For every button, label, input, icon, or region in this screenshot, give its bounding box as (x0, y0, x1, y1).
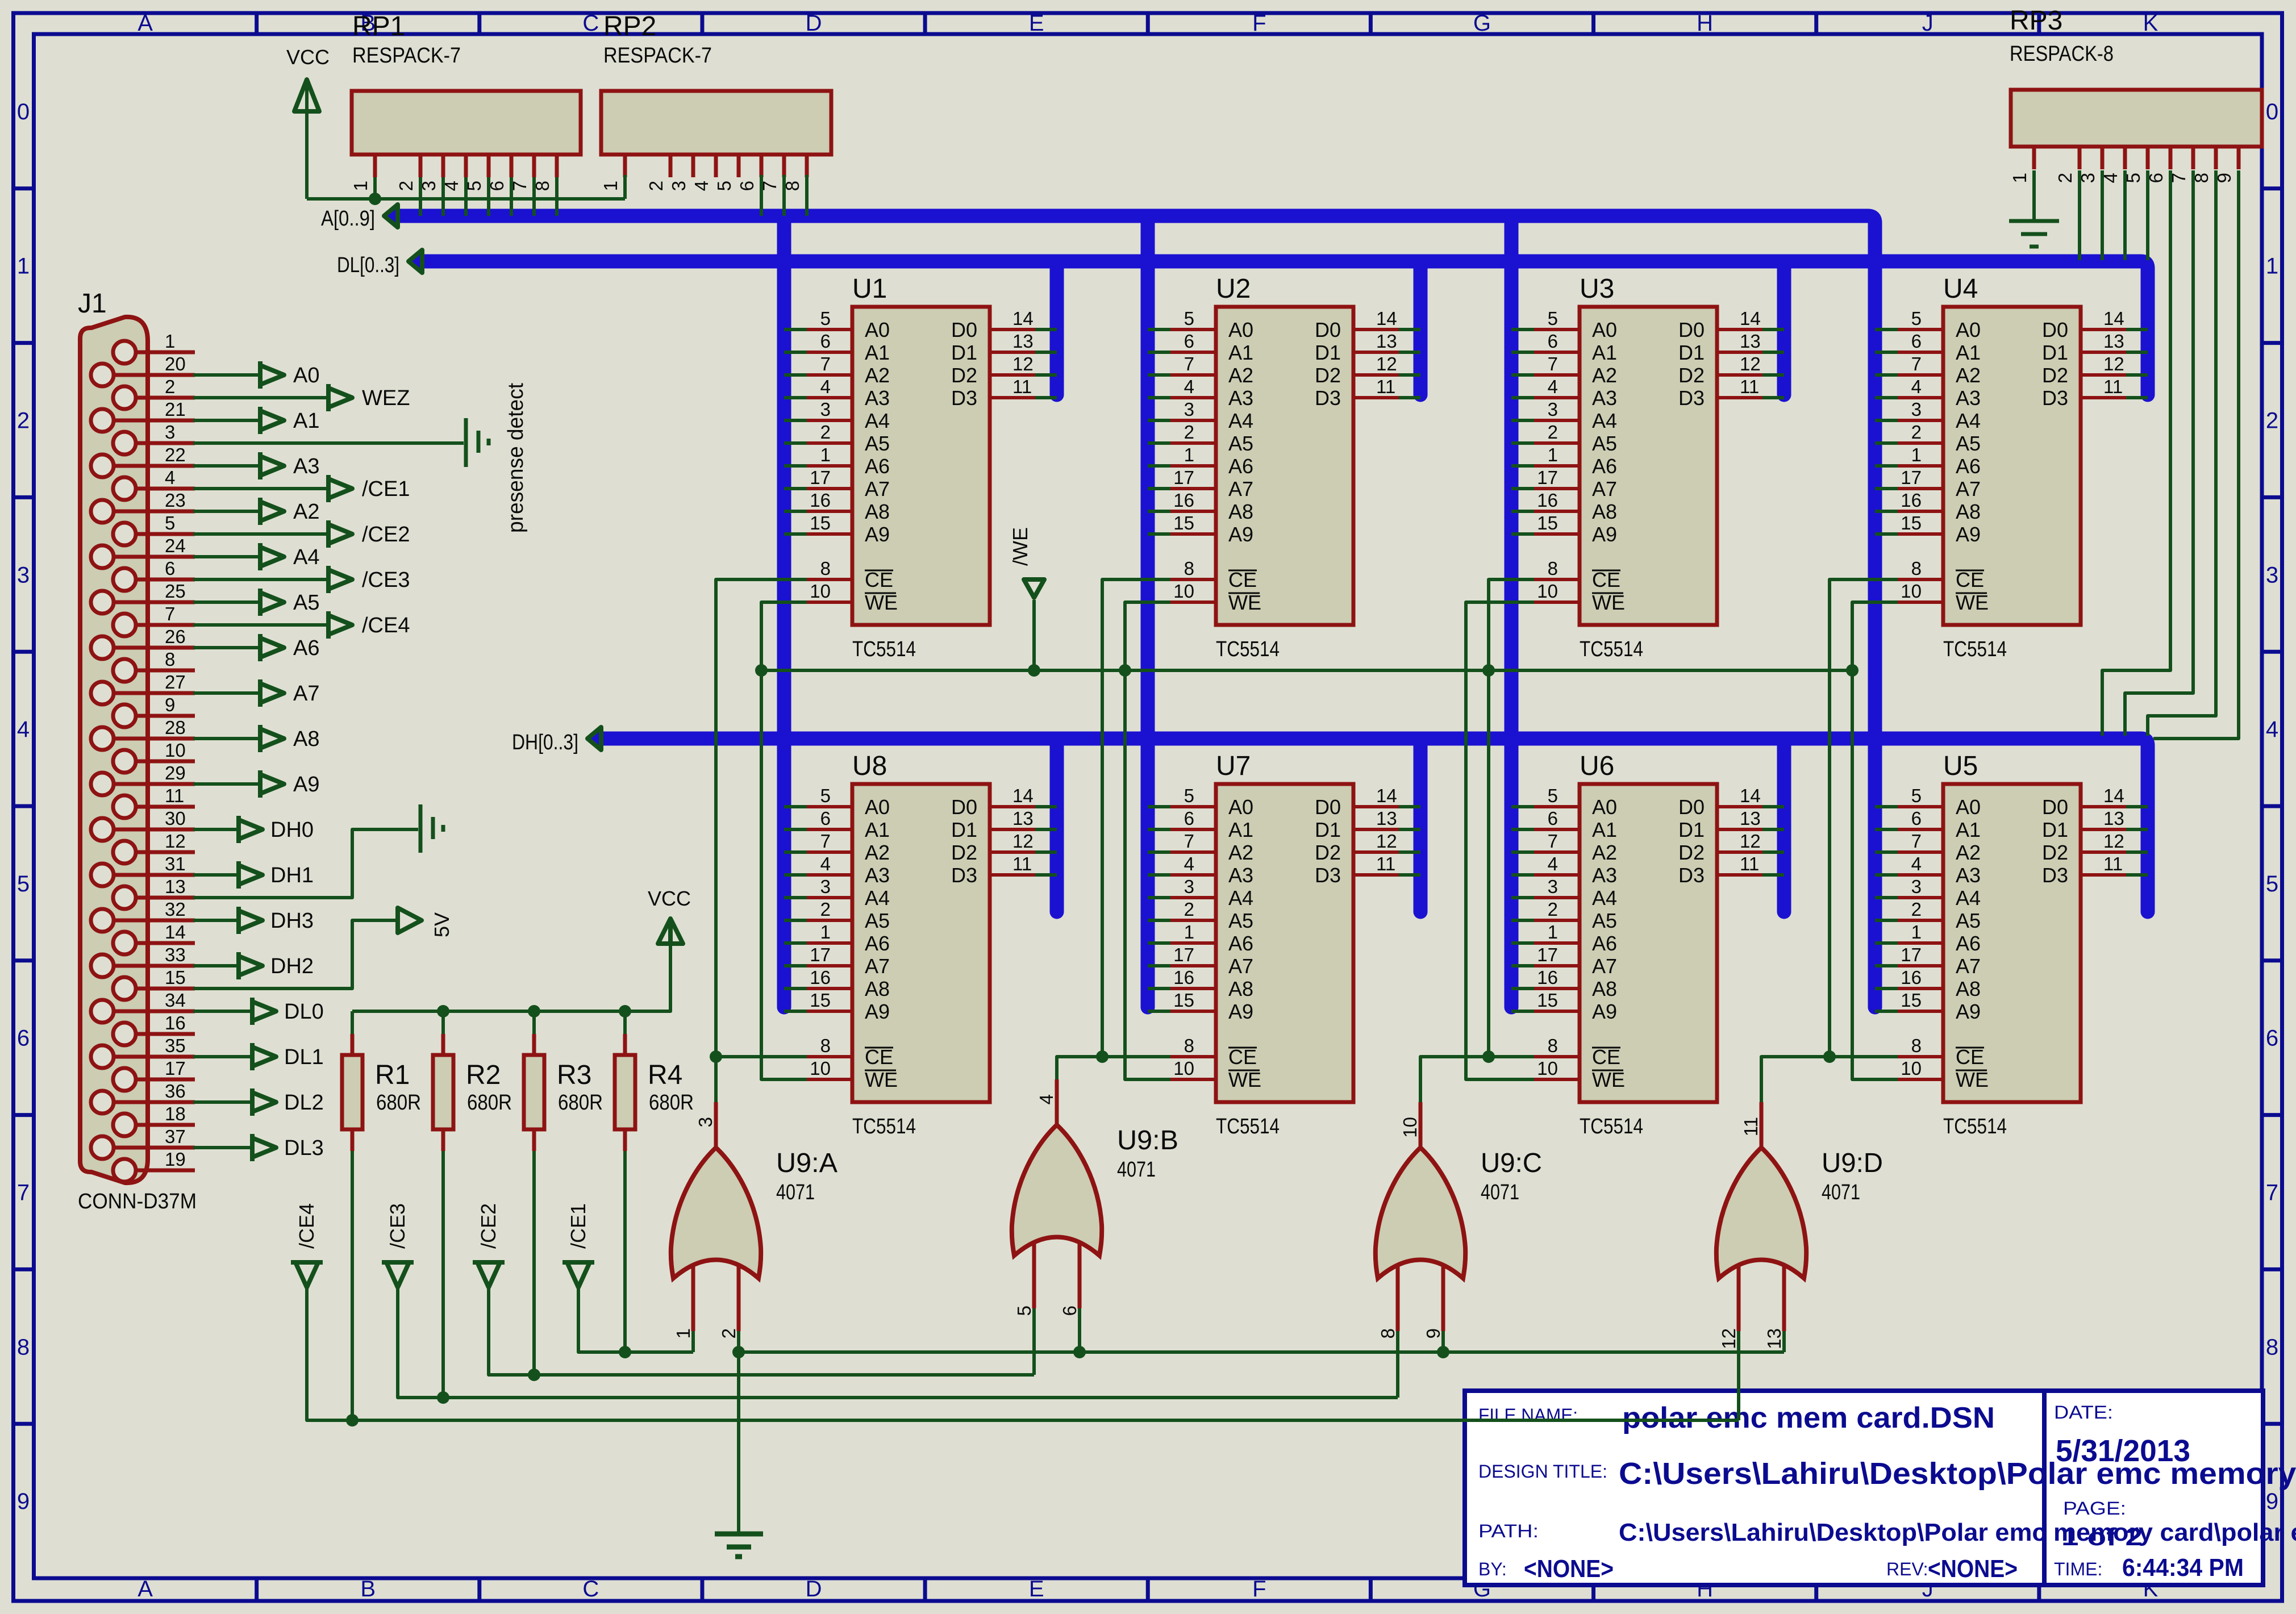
J1 pin circle 29 (91, 773, 114, 795)
svg-text:8: 8 (1377, 1328, 1398, 1338)
svg-text:DL0: DL0 (284, 1000, 324, 1024)
svg-text:1: 1 (820, 921, 831, 942)
svg-text:A6: A6 (1228, 932, 1253, 955)
bus DL[0..3] horizontal with drop to U4 data pins (423, 261, 2148, 395)
svg-text:D0: D0 (1315, 318, 1341, 341)
svg-text:A7: A7 (1228, 477, 1253, 501)
svg-text:B: B (360, 1577, 376, 1602)
bus entry arrow and label DH[0..3] (512, 727, 601, 754)
J1 pin 20 wire to terminal A0 (114, 353, 319, 389)
wire WEZ junction to ground (737, 1352, 740, 1533)
svg-text:2: 2 (1548, 899, 1558, 920)
svg-text:12: 12 (1376, 353, 1397, 374)
5V power terminal on J1 pin 15 (193, 908, 422, 989)
svg-text:11: 11 (1740, 376, 1759, 397)
bus entry arrow and label A[0..9] (321, 205, 398, 231)
svg-text:5: 5 (1014, 1306, 1035, 1316)
svg-text:WEZ: WEZ (362, 386, 410, 410)
svg-text:1: 1 (17, 254, 30, 279)
J1 pin circle 33 (91, 954, 114, 977)
svg-text:A1: A1 (1228, 818, 1253, 841)
svg-text:4: 4 (165, 467, 175, 488)
svg-text:A3: A3 (1956, 386, 1981, 410)
svg-text:12: 12 (1740, 831, 1761, 852)
svg-text:A0: A0 (1956, 318, 1981, 341)
svg-text:3: 3 (1184, 399, 1194, 420)
svg-text:A8: A8 (1592, 977, 1617, 1000)
J1 pin circle 15 (113, 977, 136, 1000)
svg-text:12: 12 (2103, 353, 2124, 374)
svg-text:33: 33 (165, 944, 186, 965)
wires RP3 pins 2-5 to DL bus (2080, 170, 2148, 260)
svg-text:A4: A4 (1592, 409, 1617, 432)
wire U9:B pin 6 to WEZ line (1078, 1308, 1081, 1352)
wires U1 data pins to bus (1035, 330, 1057, 398)
J1 pin 7 wire to terminal /CE4 (136, 603, 410, 639)
svg-text:14: 14 (165, 921, 186, 942)
bus A[0..9] horizontal with drop to column 4 (398, 216, 1875, 1007)
OR gate U9:A (4071) body (671, 1148, 761, 1278)
svg-text:13: 13 (1012, 808, 1034, 829)
svg-text:1: 1 (1548, 444, 1558, 465)
svg-text:D0: D0 (2042, 795, 2068, 819)
J1 pin 32 wire to terminal DH3 (114, 899, 314, 934)
svg-text:16: 16 (810, 967, 831, 988)
svg-text:F: F (1252, 1577, 1266, 1602)
svg-text:37: 37 (165, 1126, 186, 1147)
J1 pin 31 wire to terminal DH1 (114, 853, 314, 889)
svg-text:15: 15 (1901, 990, 1922, 1011)
junction /WE terminal (1028, 664, 1040, 677)
svg-text:WE: WE (1956, 591, 1989, 614)
svg-text:C: C (582, 11, 599, 36)
svg-text:U9:B: U9:B (1117, 1125, 1178, 1156)
svg-text:6: 6 (820, 808, 831, 829)
svg-text:/CE3: /CE3 (362, 568, 410, 592)
svg-text:15: 15 (1901, 512, 1922, 533)
svg-text:R3: R3 (557, 1060, 591, 1090)
U9:C input pin 8 stub (1377, 1264, 1398, 1338)
svg-text:16: 16 (1537, 967, 1558, 988)
svg-text:polar emc mem card.DSN: polar emc mem card.DSN (1622, 1402, 1995, 1434)
svg-text:13: 13 (1376, 808, 1397, 829)
wire CE net column 2 to bottom chip (1102, 1055, 1170, 1058)
bus data drop bottom row column 1 (1050, 739, 1064, 912)
svg-text:D2: D2 (1315, 841, 1341, 864)
svg-text:A3: A3 (293, 454, 319, 478)
svg-text:REV:: REV: (1886, 1559, 1928, 1579)
svg-text:A0: A0 (293, 364, 319, 387)
J1 pin circle 17 (113, 1068, 136, 1091)
svg-text:3: 3 (165, 422, 175, 443)
svg-text:8: 8 (820, 1035, 831, 1056)
J1 pin 18 wire (136, 1103, 195, 1125)
J1 pin circle 11 (113, 795, 136, 818)
svg-text:A8: A8 (1228, 977, 1253, 1000)
J1 pin 17 wire (136, 1058, 195, 1079)
svg-text:D3: D3 (951, 386, 977, 410)
svg-text:U7: U7 (1216, 751, 1251, 781)
wires U7 data pins to bus (1399, 807, 1420, 875)
svg-text:5: 5 (820, 785, 831, 806)
wires U8 data pins to bus (1035, 807, 1057, 875)
memory chip U3 (TC5514) (1534, 307, 1762, 625)
svg-text:32: 32 (165, 899, 186, 920)
J1 pin 4 wire to terminal /CE1 (136, 467, 410, 502)
svg-text:A3: A3 (865, 386, 890, 410)
J1 pin 27 wire to terminal A7 (114, 672, 319, 707)
svg-text:1: 1 (1548, 921, 1558, 942)
svg-text:A2: A2 (1592, 364, 1617, 387)
svg-text:2: 2 (2266, 408, 2278, 433)
svg-text:DL1: DL1 (284, 1045, 324, 1069)
svg-text:4: 4 (2266, 717, 2278, 742)
svg-text:A3: A3 (1592, 386, 1617, 410)
svg-text:CE: CE (865, 1045, 893, 1069)
svg-text:TC5514: TC5514 (852, 1115, 916, 1138)
svg-text:A2: A2 (1956, 364, 1981, 387)
svg-text:/CE2: /CE2 (362, 523, 410, 547)
wires U2 address pins to bus (1148, 330, 1170, 534)
junction CE column 1 (710, 1050, 722, 1063)
svg-text:7: 7 (1184, 831, 1194, 852)
svg-text:A1: A1 (865, 818, 890, 841)
svg-text:21: 21 (165, 399, 186, 420)
svg-text:8: 8 (1548, 558, 1558, 579)
svg-text:15: 15 (810, 512, 831, 533)
svg-text:CE: CE (1592, 1045, 1620, 1069)
svg-text:A5: A5 (1592, 432, 1617, 455)
svg-text:A9: A9 (1956, 523, 1981, 546)
J1 pin circle 20 (91, 364, 114, 386)
svg-text:10: 10 (1537, 581, 1558, 602)
svg-text:PATH:: PATH: (1478, 1521, 1539, 1541)
J1 pin circle 19 (113, 1159, 136, 1182)
svg-text:A5: A5 (865, 432, 890, 455)
svg-text:U3: U3 (1580, 274, 1614, 304)
memory chip U8 (TC5514) (807, 784, 1035, 1102)
svg-text:A7: A7 (865, 477, 890, 501)
wires U1 address pins to bus (784, 330, 807, 534)
J1 pin circle 14 (113, 932, 136, 954)
svg-text:29: 29 (165, 762, 186, 783)
svg-text:DL2: DL2 (284, 1091, 324, 1115)
svg-text:0: 0 (17, 99, 30, 124)
J1 pin circle 8 (113, 659, 136, 682)
wire CE net column 3 to bottom chip (1489, 1055, 1534, 1058)
svg-text:A0: A0 (865, 795, 890, 819)
junction CE column 3 (1482, 1050, 1495, 1063)
wire CE net column 1 top (716, 579, 807, 1057)
svg-text:A5: A5 (1956, 432, 1981, 455)
svg-text:2: 2 (1548, 422, 1558, 443)
svg-text:3: 3 (2266, 562, 2278, 587)
svg-text:5: 5 (820, 308, 831, 329)
terminal /CE4 (bottom) (291, 1262, 323, 1287)
svg-text:2: 2 (1184, 899, 1194, 920)
svg-text:17: 17 (1901, 467, 1922, 488)
svg-text:A9: A9 (1228, 1000, 1253, 1023)
resistor pack RP3 body and pins (2009, 90, 2262, 183)
svg-text:680R: 680R (649, 1091, 694, 1115)
svg-text:A1: A1 (293, 409, 319, 433)
wires U6 data pins to bus (1762, 807, 1784, 875)
svg-text:6: 6 (1911, 808, 1922, 829)
svg-text:A9: A9 (1956, 1000, 1981, 1023)
J1 pin 23 wire to terminal A2 (114, 490, 319, 525)
memory chip U7 (TC5514) (1170, 784, 1399, 1102)
svg-text:12: 12 (1012, 831, 1034, 852)
wires U5 data pins to bus (2126, 807, 2148, 875)
svg-text:D1: D1 (1315, 341, 1341, 364)
svg-text:17: 17 (1537, 944, 1558, 965)
J1 pin 29 wire to terminal A9 (114, 762, 319, 798)
wires U3 data pins to bus (1762, 330, 1784, 398)
OR gate U9:B (4071) body (1012, 1125, 1102, 1256)
J1 pin circle 4 (113, 477, 136, 500)
svg-text:9: 9 (2266, 1489, 2278, 1514)
svg-text:12: 12 (165, 831, 186, 852)
svg-text:WE: WE (1592, 1068, 1625, 1091)
U9:C input pin 9 stub (1423, 1264, 1444, 1338)
resistor R1 (680R) (342, 1034, 362, 1151)
svg-text:7: 7 (165, 603, 175, 624)
svg-text:CE: CE (865, 568, 893, 591)
wire WEZ line U9:A pin2 to U9:D pin13 (732, 1346, 1784, 1358)
svg-text:4071: 4071 (1117, 1158, 1156, 1182)
svg-text:14: 14 (1012, 308, 1034, 329)
svg-text:D0: D0 (1678, 795, 1705, 819)
svg-text:A4: A4 (1228, 886, 1253, 910)
J1 pin 19 wire (136, 1149, 195, 1170)
J1 pin circle 5 (113, 523, 136, 545)
svg-text:11: 11 (1740, 1117, 1761, 1136)
svg-text:DH[0..3]: DH[0..3] (512, 731, 578, 754)
bus data drop top row column 3 (1777, 261, 1791, 395)
svg-text:6:44:34 PM: 6:44:34 PM (2122, 1554, 2244, 1582)
svg-text:17: 17 (1173, 467, 1194, 488)
svg-text:34: 34 (165, 990, 186, 1011)
svg-text:14: 14 (1012, 785, 1034, 806)
svg-text:13: 13 (1376, 331, 1397, 352)
svg-text:D2: D2 (1678, 364, 1705, 387)
svg-text:TC5514: TC5514 (1943, 1115, 2007, 1138)
svg-text:D1: D1 (1678, 341, 1705, 364)
J1 pin circle 35 (91, 1045, 114, 1068)
svg-text:WE: WE (865, 1068, 898, 1091)
wire VCC rail to resistors R1-R4 (352, 943, 670, 1034)
svg-text:4: 4 (1911, 853, 1922, 874)
wire U9:C output to CE column 3 (1420, 1057, 1489, 1102)
J1 pin 8 wire (136, 649, 195, 670)
svg-text:H: H (1697, 11, 1713, 36)
svg-text:17: 17 (165, 1058, 186, 1079)
svg-text:A3: A3 (1228, 386, 1253, 410)
svg-text:5: 5 (1911, 308, 1922, 329)
J1 pin circle 27 (91, 682, 114, 704)
svg-text:RESPACK-7: RESPACK-7 (352, 44, 461, 68)
svg-text:5: 5 (1548, 785, 1558, 806)
J1 pin circle 26 (91, 636, 114, 659)
memory chip U5 (TC5514) (1898, 784, 2126, 1102)
svg-text:14: 14 (1740, 308, 1761, 329)
svg-text:680R: 680R (467, 1091, 512, 1115)
svg-text:A9: A9 (865, 523, 890, 546)
svg-text:13: 13 (2103, 808, 2124, 829)
J1 pin 28 wire to terminal A8 (114, 717, 319, 752)
svg-text:DH3: DH3 (270, 909, 314, 933)
svg-text:A2: A2 (1228, 841, 1253, 864)
junction /WE at col4 (1846, 664, 1859, 677)
svg-text:3: 3 (17, 562, 30, 587)
junction /WE at col2 (1119, 664, 1131, 677)
svg-text:A6: A6 (865, 454, 890, 478)
bus DH[0..3] horizontal with drop to U5 data pins (602, 739, 2148, 912)
svg-text:16: 16 (1901, 490, 1922, 511)
svg-text:13: 13 (1764, 1328, 1785, 1349)
svg-text:11: 11 (1012, 853, 1032, 874)
wire common /WE line (761, 669, 1852, 672)
U9:A input pin 2 stub (718, 1264, 739, 1338)
svg-text:D: D (806, 11, 822, 36)
svg-text:8: 8 (1911, 558, 1922, 579)
J1 pin circle 36 (91, 1091, 114, 1113)
J1 pin 10 wire (136, 740, 195, 761)
svg-text:2: 2 (2055, 173, 2076, 183)
svg-text:12: 12 (1012, 353, 1034, 374)
J1 pin circle 7 (113, 614, 136, 636)
svg-text:D1: D1 (2042, 341, 2068, 364)
svg-text:19: 19 (165, 1149, 186, 1170)
svg-text:14: 14 (1376, 785, 1397, 806)
wires U8 address pins to bus (784, 807, 807, 1011)
svg-text:2: 2 (718, 1328, 739, 1338)
wire U9:D pin 13 from WEZ line (1782, 1331, 1786, 1352)
svg-text:10: 10 (810, 1058, 831, 1079)
svg-text:A3: A3 (1956, 864, 1981, 887)
svg-text:14: 14 (1376, 308, 1397, 329)
svg-text:10: 10 (1537, 1058, 1558, 1079)
svg-text:1 of 2: 1 of 2 (2061, 1523, 2143, 1551)
wires U5 address pins to bus (1875, 807, 1898, 1011)
wire RP3 pin 1 to ground (2009, 170, 2059, 247)
J1 pin 22 wire to terminal A3 (114, 444, 319, 479)
svg-text:U5: U5 (1943, 751, 1978, 781)
svg-text:A1: A1 (865, 341, 890, 364)
svg-text:25: 25 (165, 581, 186, 602)
svg-text:D3: D3 (1315, 864, 1341, 887)
memory chip U4 (TC5514) (1898, 307, 2126, 625)
svg-text:12: 12 (1740, 353, 1761, 374)
svg-text:9: 9 (17, 1489, 30, 1514)
svg-text:D1: D1 (951, 818, 977, 841)
svg-text:680R: 680R (376, 1091, 421, 1115)
svg-text:A4: A4 (865, 409, 890, 432)
J1 pin circle 34 (91, 1000, 114, 1023)
svg-text:A6: A6 (865, 932, 890, 955)
svg-text:3: 3 (1548, 399, 1558, 420)
svg-text:13: 13 (1740, 331, 1761, 352)
svg-text:1: 1 (600, 181, 621, 191)
junction CE column 2 (1096, 1050, 1109, 1063)
J1 pin 5 wire to terminal /CE2 (136, 512, 410, 548)
svg-text:A7: A7 (1228, 954, 1253, 978)
bus address drop column 3 (1505, 216, 1519, 1007)
svg-text:4: 4 (1184, 376, 1194, 397)
wire WE vertical column 1 (761, 602, 807, 1079)
svg-text:U9:A: U9:A (776, 1148, 837, 1178)
svg-text:3: 3 (695, 1117, 716, 1127)
J1 pin circle 2 (113, 386, 136, 409)
svg-text:6: 6 (1911, 331, 1922, 352)
ground symbol (bottom centre) (715, 1534, 763, 1557)
junction /WE at col1 (755, 664, 768, 677)
wire VCC rail to RP1/RP2 pin 1 (307, 175, 807, 216)
svg-text:A9: A9 (1592, 523, 1617, 546)
svg-text:3: 3 (668, 181, 689, 191)
resistor R2 (680R) (433, 1034, 453, 1151)
svg-text:A6: A6 (1592, 932, 1617, 955)
svg-text:4071: 4071 (1822, 1181, 1860, 1204)
svg-text:5: 5 (2266, 871, 2278, 896)
svg-text:J1: J1 (78, 289, 107, 319)
ground terminal (presense detect) on J1 pin 3 (193, 418, 489, 467)
svg-text:D2: D2 (1315, 364, 1341, 387)
svg-text:A[0..9]: A[0..9] (321, 207, 375, 231)
svg-text:4: 4 (820, 853, 831, 874)
svg-text:2: 2 (1911, 899, 1922, 920)
svg-text:14: 14 (2103, 785, 2124, 806)
svg-text:A0: A0 (1956, 795, 1981, 819)
svg-text:A5: A5 (1228, 432, 1253, 455)
svg-text:10: 10 (1399, 1117, 1420, 1138)
svg-text:7: 7 (1548, 353, 1558, 374)
svg-text:A8: A8 (1956, 977, 1981, 1000)
svg-text:A8: A8 (293, 727, 319, 751)
wire /CE3 line to U9:C pin 8 (398, 1151, 1398, 1404)
svg-text:TC5514: TC5514 (1943, 637, 2007, 661)
svg-text:A2: A2 (1592, 841, 1617, 864)
svg-text:RESPACK-7: RESPACK-7 (603, 44, 712, 68)
resistor R4 (680R) (615, 1034, 635, 1151)
svg-text:28: 28 (165, 717, 186, 738)
svg-text:3: 3 (820, 876, 831, 897)
svg-text:WE: WE (865, 591, 898, 614)
svg-text:4: 4 (1036, 1094, 1057, 1104)
svg-text:D1: D1 (951, 341, 977, 364)
svg-text:WE: WE (1592, 591, 1625, 614)
OR gate U9:C (4071) body (1376, 1148, 1465, 1278)
svg-text:WE: WE (1956, 1068, 1989, 1091)
wire U9:B output to CE column 2 (1057, 1057, 1102, 1079)
svg-text:7: 7 (1184, 353, 1194, 374)
svg-text:A: A (137, 1577, 153, 1602)
svg-text:TC5514: TC5514 (1580, 1115, 1643, 1138)
wire /CE2 line to U9:B pin 5 (489, 1151, 1034, 1381)
J1 pin circle 25 (91, 591, 114, 614)
ground terminal on J1 pin 13 (193, 804, 443, 898)
svg-text:A9: A9 (1228, 523, 1253, 546)
svg-text:6: 6 (17, 1026, 30, 1051)
svg-text:A4: A4 (1956, 409, 1981, 432)
svg-text:D: D (806, 1577, 822, 1602)
svg-text:A5: A5 (865, 909, 890, 932)
svg-text:D3: D3 (1678, 864, 1705, 887)
bus entry arrow and label DL[0..3] (337, 250, 422, 277)
wire WE vertical column 2 (1125, 602, 1170, 1079)
svg-text:1: 1 (820, 444, 831, 465)
svg-text:4071: 4071 (776, 1181, 815, 1204)
